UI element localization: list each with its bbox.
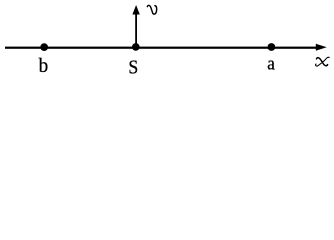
axis label x xyxy=(316,57,330,66)
point b dot xyxy=(40,43,48,51)
svg-text:a: a xyxy=(267,53,275,74)
point S dot xyxy=(132,43,140,51)
x-axis arrowhead xyxy=(316,44,327,51)
label v xyxy=(147,5,156,14)
point a dot xyxy=(268,43,276,51)
svg-text:b: b xyxy=(39,54,49,77)
velocity arrow shaft xyxy=(135,14,137,48)
x-axis line xyxy=(5,47,318,49)
svg-text:S: S xyxy=(128,57,138,79)
velocity arrowhead xyxy=(132,5,139,15)
